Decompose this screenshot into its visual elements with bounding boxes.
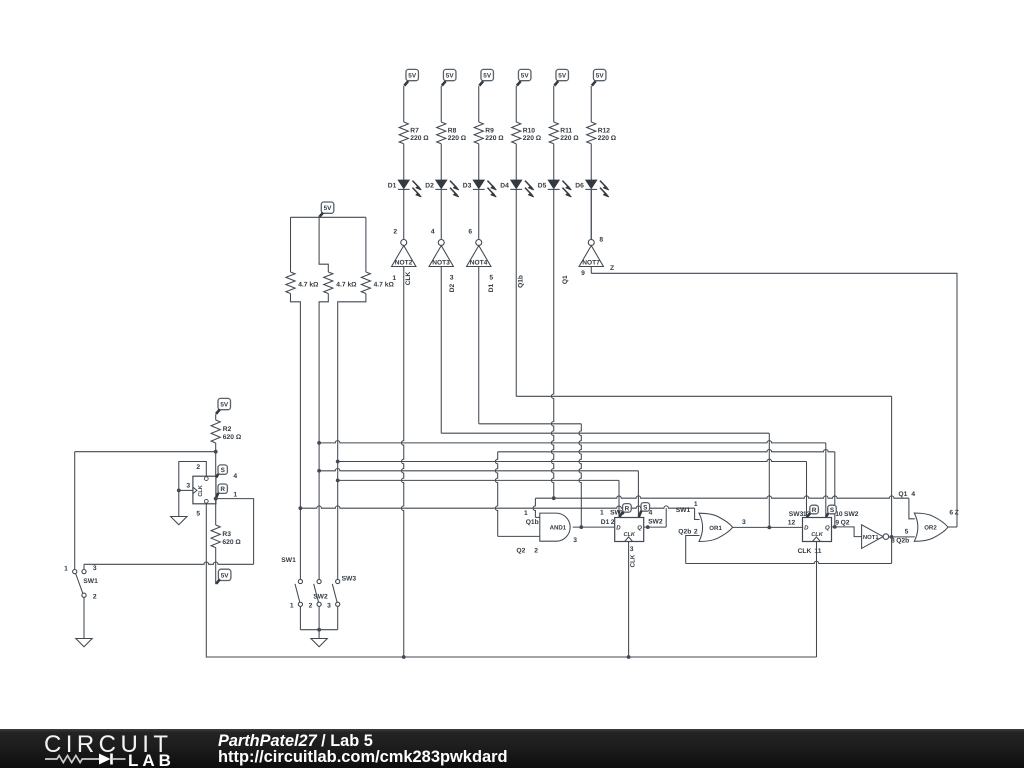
svg-text:SW3: SW3 <box>342 576 357 583</box>
svg-text:SW1: SW1 <box>83 578 98 585</box>
wire net SW2 horizontal (to FF1 S) <box>319 468 638 470</box>
wire OR1 pin 1 jog <box>695 508 700 519</box>
svg-text:D5: D5 <box>538 182 547 189</box>
svg-text:SW2: SW2 <box>648 518 663 525</box>
junction <box>317 441 321 445</box>
svg-text:2: 2 <box>393 228 397 235</box>
wire net SW2 horizontal (to FF2 S) <box>319 441 826 443</box>
wire riser net SW3 to FF2 R pin <box>806 462 808 518</box>
net flag S <box>218 465 227 474</box>
svg-text:5: 5 <box>489 275 493 282</box>
wire <box>478 144 480 180</box>
wire <box>338 294 366 462</box>
svg-text:D: D <box>804 525 809 532</box>
wire <box>403 189 405 239</box>
svg-text:NOT2: NOT2 <box>395 259 413 266</box>
net flag R <box>218 484 227 493</box>
switch SW2 (input trio) <box>317 579 321 583</box>
wire AND1 output to FF1 D <box>573 526 615 528</box>
junction <box>890 535 894 539</box>
wire FF2 Q output jog to NOT1 <box>832 527 862 537</box>
OR gate OR1 <box>699 513 733 541</box>
resistor R7 220 ohm <box>399 122 408 144</box>
svg-text:620 Ω: 620 Ω <box>223 434 242 441</box>
wire riser net SW2 to FF2 S pin <box>825 443 827 518</box>
svg-text:R: R <box>812 507 817 514</box>
svg-text:6: 6 <box>468 228 472 235</box>
svg-text:5V: 5V <box>521 72 530 79</box>
svg-text:2: 2 <box>694 529 698 536</box>
wire net D2 horizontal <box>441 432 769 434</box>
svg-text:3: 3 <box>630 546 634 553</box>
junction <box>214 497 218 501</box>
wire <box>337 606 339 629</box>
flip-flop FF2 box <box>803 518 832 542</box>
latch U1 box <box>193 476 216 504</box>
wire NOT1 output <box>889 536 915 538</box>
svg-text:SW2: SW2 <box>313 593 328 600</box>
inverter NOT3 <box>438 240 444 246</box>
wire <box>590 86 592 122</box>
LED D4 <box>511 180 522 189</box>
svg-text:Q1b: Q1b <box>526 519 539 526</box>
wire R2 junction to latch pin 4 <box>215 452 217 477</box>
wire <box>440 86 442 122</box>
svg-text:D4: D4 <box>500 182 509 189</box>
svg-text:3: 3 <box>573 537 577 544</box>
resistor R2 620 ohm <box>211 420 220 443</box>
svg-text:3: 3 <box>742 519 746 526</box>
power flag 5V (column R9) <box>481 69 494 80</box>
svg-text:NOT3: NOT3 <box>432 259 450 266</box>
resistor R3 620 ohm <box>211 525 220 548</box>
svg-text:Q1: Q1 <box>562 275 569 284</box>
AND gate AND1 <box>540 513 570 541</box>
svg-text:220 Ω: 220 Ω <box>485 135 504 142</box>
svg-text:4: 4 <box>233 473 237 480</box>
wire riser net Q2 to AND1 pin 2 <box>495 452 497 537</box>
wire net SW1 horizontal (to OR1 pin 1) <box>300 506 694 508</box>
svg-text:R10: R10 <box>523 128 536 135</box>
wire <box>478 86 480 122</box>
svg-text:D3: D3 <box>463 182 472 189</box>
svg-text:3: 3 <box>327 603 331 610</box>
power flag 5V (column R11) <box>556 69 569 80</box>
wire latch pin 5 down <box>206 504 816 657</box>
wire <box>478 189 480 239</box>
wire FF1 Q riser <box>665 508 667 527</box>
svg-text:S: S <box>643 504 648 511</box>
svg-text:OR2: OR2 <box>924 524 937 531</box>
svg-text:R11: R11 <box>560 128 572 135</box>
svg-text:5V: 5V <box>220 401 229 408</box>
svg-text:8: 8 <box>599 237 603 244</box>
wire R3 top <box>215 499 217 525</box>
wire <box>290 217 292 272</box>
junction <box>552 496 556 500</box>
resistor R10 220 ohm <box>512 122 521 144</box>
wire OR1 output to FF2 D <box>733 526 803 528</box>
wire <box>299 606 301 629</box>
wire <box>215 443 217 452</box>
junction <box>579 525 583 529</box>
LED D2 <box>436 180 447 189</box>
svg-text:2: 2 <box>534 547 538 554</box>
junction <box>336 460 340 464</box>
svg-text:CLK: CLK <box>198 485 204 497</box>
svg-text:S: S <box>830 507 835 514</box>
wire net D1 horizontal <box>479 423 582 425</box>
wire net Q2b horizontal <box>686 561 892 563</box>
svg-text:220 Ω: 220 Ω <box>523 135 542 142</box>
OR gate OR2 <box>914 513 948 541</box>
svg-text:1: 1 <box>694 501 698 508</box>
resistor R11 220 ohm <box>549 122 558 144</box>
junction <box>214 450 218 454</box>
wire <box>365 217 367 272</box>
resistor R9 220 ohm <box>474 122 483 144</box>
inverter NOT4 <box>476 240 482 246</box>
power flag 5V (column R7) <box>406 69 419 80</box>
wire riser net Q1b / Q2b right side <box>891 396 893 563</box>
svg-text:D2: D2 <box>425 182 434 189</box>
svg-text:620 Ω: 620 Ω <box>222 539 241 546</box>
resistor R12 220 ohm <box>587 122 596 144</box>
wire <box>318 606 320 629</box>
svg-text:1: 1 <box>524 510 528 517</box>
svg-text:NOT7: NOT7 <box>582 259 600 266</box>
wire riser net D2 to OR1 output <box>768 433 770 527</box>
svg-text:2: 2 <box>93 593 97 600</box>
wire <box>319 217 328 272</box>
svg-text:CLK: CLK <box>405 271 412 285</box>
net flag S (FF1) <box>641 503 650 512</box>
LED D3 <box>473 180 484 189</box>
junction <box>317 628 321 632</box>
svg-text:R2: R2 <box>223 426 232 433</box>
wire riser net SW3 to FF1 R pin <box>618 480 620 517</box>
svg-text:Q2b: Q2b <box>896 538 909 545</box>
wire <box>590 144 592 180</box>
svg-text:D2: D2 <box>449 283 456 292</box>
junction <box>646 525 650 529</box>
svg-text:R9: R9 <box>485 128 494 135</box>
svg-text:D1: D1 <box>388 182 397 189</box>
svg-text:SW1: SW1 <box>281 557 296 564</box>
wire <box>337 462 339 481</box>
svg-text:CLK: CLK <box>811 532 823 538</box>
svg-text:D1: D1 <box>601 519 610 526</box>
wire net Q2 horizontal <box>498 450 835 452</box>
wire FF1 Q output <box>644 526 667 528</box>
svg-text:R3: R3 <box>222 531 231 538</box>
svg-text:8: 8 <box>891 538 895 545</box>
svg-text:2: 2 <box>196 464 200 471</box>
wire <box>553 144 555 180</box>
svg-text:R8: R8 <box>448 128 457 135</box>
svg-text:3: 3 <box>93 565 97 572</box>
LED D5 <box>548 180 559 189</box>
svg-text:5V: 5V <box>221 572 230 579</box>
wire net SW3 horizontal (to FF2 R) <box>338 459 807 461</box>
wire <box>299 508 301 579</box>
inverter NOT2 <box>401 240 407 246</box>
ground (SW1) <box>76 639 92 647</box>
svg-text:D: D <box>616 525 621 532</box>
power flag 5V (R2) <box>218 398 231 409</box>
wire <box>318 443 320 471</box>
svg-text:D6: D6 <box>575 182 584 189</box>
wire Q1b column (LED D4 down) <box>515 189 517 396</box>
net flag R (FF2) <box>810 505 819 514</box>
junction <box>767 526 771 530</box>
switch SW3 (input trio) <box>336 579 340 583</box>
svg-text:Q2b: Q2b <box>678 529 691 536</box>
svg-text:4: 4 <box>911 491 915 498</box>
svg-text:1: 1 <box>64 566 68 573</box>
svg-text:R7: R7 <box>410 128 419 135</box>
inverter NOT7 <box>588 240 594 246</box>
svg-text:R: R <box>625 505 630 512</box>
LED D6 <box>586 180 597 189</box>
resistor R8 220 ohm <box>437 122 446 144</box>
svg-text:D1: D1 <box>488 283 495 292</box>
svg-text:5V: 5V <box>483 72 492 79</box>
svg-text:R: R <box>220 486 225 493</box>
svg-text:2: 2 <box>309 603 313 610</box>
junction <box>833 525 837 529</box>
wire D1 column (NOT4 input down) <box>478 267 480 424</box>
wire NOT7 output stub <box>590 267 592 274</box>
wire riser net D1 to AND1 output <box>579 424 581 527</box>
power flag 5V (column R8) <box>443 69 456 80</box>
svg-text:CLK: CLK <box>623 532 635 538</box>
svg-text:Q: Q <box>825 525 830 532</box>
svg-text:1: 1 <box>290 603 294 610</box>
wire OR2 output <box>948 526 957 528</box>
svg-text:5V: 5V <box>408 72 417 79</box>
ground (latch) <box>171 517 187 525</box>
wire pull-up rail <box>291 216 366 218</box>
svg-text:5V: 5V <box>596 72 605 79</box>
junction <box>402 655 406 659</box>
switch SW1 <box>73 570 77 574</box>
switch SW1 (input trio) <box>298 579 302 583</box>
wire <box>403 144 405 180</box>
svg-text:220 Ω: 220 Ω <box>410 135 429 142</box>
svg-text:NOT4: NOT4 <box>470 259 488 266</box>
svg-text:11: 11 <box>814 548 821 555</box>
junction <box>177 489 181 493</box>
resistor 4.7k A <box>286 272 295 294</box>
power flag 5V (pull-ups) <box>321 202 334 213</box>
wire <box>590 189 592 239</box>
svg-text:220 Ω: 220 Ω <box>560 135 579 142</box>
svg-text:SW1: SW1 <box>676 507 691 514</box>
wire net Z (OR2 output up and to NOT7) <box>591 273 957 527</box>
wire <box>553 86 555 122</box>
net flag S (FF2) <box>828 505 837 514</box>
wire switch commons <box>300 629 337 631</box>
wire <box>291 294 301 509</box>
svg-text:2: 2 <box>611 519 615 526</box>
wire net Q1 jog to OR2 pin 1 <box>909 498 915 519</box>
wire <box>319 294 328 443</box>
wire <box>440 189 442 239</box>
power flag 5V (R3) <box>218 569 231 580</box>
svg-text:5: 5 <box>905 528 909 535</box>
wire to SW1 <box>75 451 216 453</box>
svg-text:3: 3 <box>186 483 190 490</box>
svg-text:Q1: Q1 <box>898 491 907 498</box>
svg-text:CLK: CLK <box>798 548 812 555</box>
wire CLK column (NOT2 input down to clock rail) <box>401 267 403 658</box>
svg-text:CLK: CLK <box>630 554 637 567</box>
junction <box>299 506 303 510</box>
svg-text:9: 9 <box>581 270 585 277</box>
wire latch pin 1 loop <box>216 499 254 565</box>
wire <box>83 597 85 638</box>
svg-text:12: 12 <box>788 520 796 527</box>
svg-text:Q: Q <box>637 525 642 532</box>
wire D2 column (NOT3 input down) <box>440 267 442 434</box>
wire net SW3 horizontal (to FF1 R) <box>338 479 619 481</box>
svg-text:5: 5 <box>196 510 200 517</box>
wire latch pin 3 <box>179 489 193 491</box>
inverter NOT1 <box>862 525 884 549</box>
svg-text:1: 1 <box>233 492 237 499</box>
wire net SW1 horizontal (switch to latch) <box>84 562 254 564</box>
wire riser net SW2 to FF1 S pin <box>637 471 639 518</box>
net flag R (FF1) <box>623 504 632 513</box>
flip-flop FF1 box <box>615 518 644 542</box>
wire <box>440 144 442 180</box>
wire riser AND1 pin 1 <box>535 516 539 518</box>
svg-text:AND1: AND1 <box>550 525 567 532</box>
svg-text:Q2: Q2 <box>516 547 525 554</box>
wire NOT7 column (LED D6 down to NOT7) <box>590 189 592 239</box>
svg-text:220 Ω: 220 Ω <box>448 135 467 142</box>
svg-text:6: 6 <box>949 510 953 517</box>
wire <box>403 86 405 122</box>
power flag 5V (column R10) <box>518 69 531 80</box>
wire <box>83 564 85 569</box>
wire FF1 CLK down <box>628 542 630 658</box>
wire R3 bottom <box>215 548 217 585</box>
power flag 5V (column R12) <box>593 69 606 80</box>
svg-text:NOT1: NOT1 <box>863 534 879 541</box>
wire <box>215 414 217 420</box>
wire <box>515 144 517 180</box>
svg-text:SW3: SW3 <box>789 511 804 518</box>
wire OR1 pin 2 jog <box>686 536 700 564</box>
svg-text:5V: 5V <box>558 72 567 79</box>
wire <box>318 630 320 639</box>
svg-text:4.7 kΩ: 4.7 kΩ <box>336 281 357 288</box>
wire latch pin 2 loop to ground <box>179 462 207 517</box>
svg-text:Q1b: Q1b <box>517 275 524 288</box>
wire <box>515 86 517 122</box>
resistor 4.7k B <box>324 272 333 294</box>
svg-text:SW2: SW2 <box>844 511 859 518</box>
svg-text:S: S <box>221 467 226 474</box>
svg-text:Z: Z <box>610 265 614 272</box>
resistor 4.7k C <box>361 272 370 294</box>
svg-text:R12: R12 <box>598 128 611 135</box>
svg-text:4: 4 <box>431 228 435 235</box>
svg-text:5V: 5V <box>446 72 455 79</box>
wire clock rail riser to FF2 CLK <box>816 542 818 658</box>
svg-text:4.7 kΩ: 4.7 kΩ <box>374 281 395 288</box>
svg-text:OR1: OR1 <box>709 525 722 532</box>
svg-text:Q2: Q2 <box>841 520 850 527</box>
svg-text:1: 1 <box>600 509 604 516</box>
LED D1 <box>398 180 409 189</box>
svg-text:4.7 kΩ: 4.7 kΩ <box>298 281 319 288</box>
wire net Q1b horizontal <box>516 395 891 397</box>
svg-text:220 Ω: 220 Ω <box>598 135 617 142</box>
ground (switch trio) <box>311 639 327 647</box>
wire Q1 column (LED D5 down) <box>551 189 553 498</box>
wire riser net Q2 to FF2 Q output <box>834 452 836 527</box>
svg-text:5V: 5V <box>324 205 333 212</box>
svg-text:3: 3 <box>450 275 454 282</box>
wire net Q1 horizontal (to OR2 pin 1) <box>535 496 909 498</box>
